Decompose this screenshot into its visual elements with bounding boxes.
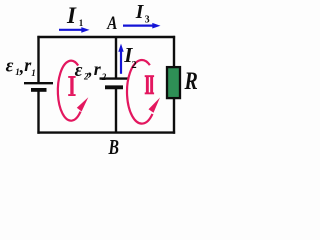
svg-text:,: , [87, 59, 93, 79]
svg-text:2: 2 [132, 60, 137, 71]
svg-text:1: 1 [79, 18, 84, 28]
svg-text:R: R [184, 67, 198, 95]
svg-text:B: B [108, 136, 119, 159]
svg-text:A: A [106, 12, 117, 33]
svg-text:3: 3 [145, 14, 150, 25]
svg-text:I: I [135, 2, 145, 23]
svg-text:1: 1 [31, 68, 36, 78]
svg-text:I: I [66, 3, 77, 28]
svg-text:ε: ε [6, 56, 14, 77]
svg-text:ε: ε [75, 60, 83, 81]
svg-text:2: 2 [101, 72, 107, 82]
svg-text:r: r [94, 59, 102, 79]
